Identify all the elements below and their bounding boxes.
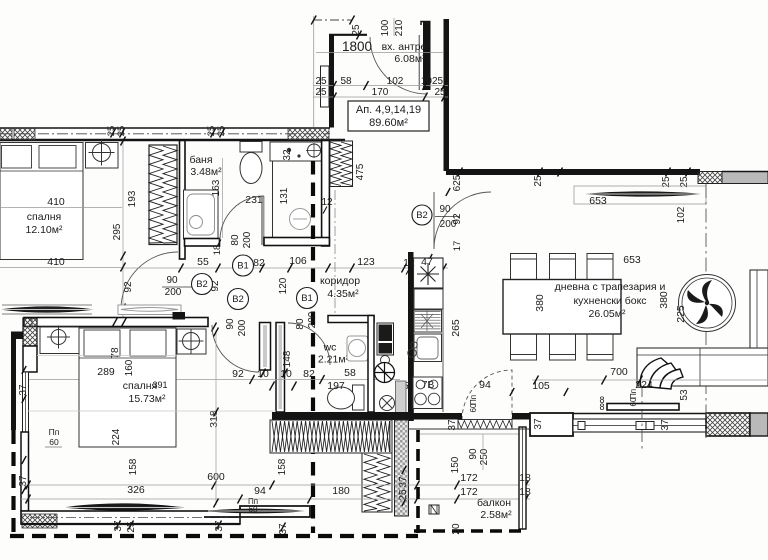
property line south bbox=[10, 534, 418, 538]
door arc entrance bbox=[370, 37, 427, 94]
svg-text:193: 193 bbox=[127, 190, 138, 207]
dim row corridor bbox=[123, 267, 448, 269]
svg-text:92: 92 bbox=[452, 213, 463, 225]
window zigzag south bbox=[270, 420, 392, 453]
svg-text:вх. антре: вх. антре bbox=[382, 41, 427, 53]
svg-text:200: 200 bbox=[237, 319, 248, 336]
svg-text:158: 158 bbox=[128, 458, 139, 475]
svg-text:Ап. 4,9,14,19: Ап. 4,9,14,19 bbox=[356, 104, 421, 116]
wall storage south bbox=[264, 238, 329, 246]
wall entrance west bbox=[329, 34, 334, 128]
radiator lens living north bbox=[586, 192, 700, 197]
svg-text:210: 210 bbox=[394, 19, 405, 36]
svg-text:225: 225 bbox=[675, 305, 687, 323]
tick marks top band bbox=[111, 129, 225, 138]
svg-text:90: 90 bbox=[468, 448, 479, 460]
door leaf gray bath-storage bbox=[261, 196, 265, 245]
balcony south dashed bbox=[414, 529, 527, 533]
svg-text:32: 32 bbox=[282, 149, 293, 161]
balcony floor lines bbox=[420, 433, 519, 435]
wall bedroom1 east bbox=[180, 141, 186, 260]
wall wc north bbox=[328, 316, 374, 323]
svg-text:380: 380 bbox=[534, 294, 546, 312]
wall block living south crosshatch bbox=[706, 413, 750, 436]
counter edge kitchen bbox=[413, 258, 415, 421]
wall living west bbox=[408, 252, 414, 421]
apartment label box bbox=[348, 101, 429, 131]
svg-text:78: 78 bbox=[110, 347, 121, 359]
axis dashdot storage bbox=[334, 190, 336, 316]
svg-text:В2: В2 bbox=[232, 294, 244, 305]
svg-text:В2: В2 bbox=[196, 279, 208, 290]
svg-text:172: 172 bbox=[460, 472, 478, 484]
svg-text:60: 60 bbox=[629, 397, 638, 406]
svg-text:18: 18 bbox=[519, 472, 531, 484]
svg-text:8: 8 bbox=[599, 402, 604, 412]
svg-text:wc: wc bbox=[323, 342, 337, 354]
sink kitchen bbox=[414, 334, 442, 362]
terrace lens bbox=[2, 307, 92, 313]
door bath arc bbox=[220, 196, 264, 240]
svg-text:18: 18 bbox=[519, 486, 531, 498]
svg-text:200: 200 bbox=[307, 311, 318, 328]
dim line 700 bbox=[532, 379, 768, 381]
fridge kitchen bbox=[414, 289, 443, 309]
nightstand bedroom1 bbox=[86, 143, 119, 169]
svg-text:12: 12 bbox=[321, 197, 333, 208]
svg-text:123: 123 bbox=[357, 256, 375, 268]
svg-text:60: 60 bbox=[249, 505, 258, 514]
svg-text:653: 653 bbox=[623, 254, 641, 266]
svg-text:410: 410 bbox=[47, 196, 65, 208]
svg-text:25: 25 bbox=[126, 521, 137, 533]
svg-text:18: 18 bbox=[212, 245, 223, 256]
svg-text:265: 265 bbox=[450, 319, 462, 337]
svg-text:2.21м²: 2.21м² bbox=[318, 354, 350, 366]
svg-text:200: 200 bbox=[242, 231, 253, 248]
pilaster entrance west bbox=[321, 66, 330, 107]
axis dashdot living bbox=[705, 184, 707, 438]
svg-text:148: 148 bbox=[282, 350, 293, 367]
svg-text:80: 80 bbox=[230, 234, 241, 246]
svg-text:200: 200 bbox=[165, 287, 182, 298]
svg-text:318: 318 bbox=[208, 410, 220, 428]
svg-text:В1: В1 bbox=[237, 261, 249, 272]
wall south jog bbox=[204, 506, 310, 517]
wall kitchen south bbox=[408, 413, 462, 420]
door balcony arc dashed bbox=[462, 370, 512, 420]
svg-text:231: 231 bbox=[245, 194, 263, 206]
wardrobe bedroom1 bbox=[149, 145, 177, 245]
svg-text:20: 20 bbox=[451, 523, 462, 535]
svg-text:160: 160 bbox=[124, 359, 135, 376]
svg-text:625: 625 bbox=[452, 174, 463, 191]
svg-text:250: 250 bbox=[479, 448, 490, 465]
svg-text:балкон: балкон bbox=[477, 497, 511, 509]
section line vertical bbox=[311, 161, 315, 533]
balcony east railing bbox=[519, 427, 526, 529]
door label B1 wc bbox=[297, 288, 318, 309]
stove kitchen bbox=[413, 377, 442, 409]
svg-text:90: 90 bbox=[166, 275, 178, 286]
wall bedroom2 south bbox=[21, 511, 240, 524]
shaft star bbox=[417, 263, 439, 285]
ticks bedroom2 band bbox=[113, 318, 118, 327]
svg-text:172: 172 bbox=[460, 486, 478, 498]
svg-text:Пп: Пп bbox=[629, 389, 638, 399]
svg-text:37: 37 bbox=[447, 419, 458, 431]
dim line entrance y52 bbox=[316, 52, 443, 54]
svg-text:37: 37 bbox=[398, 476, 409, 488]
light lines bedroom2 bbox=[37, 355, 176, 357]
nightstand bedroom2 right bbox=[177, 329, 206, 354]
axis dashdot bottom bbox=[641, 385, 643, 452]
svg-text:700: 700 bbox=[610, 366, 628, 378]
svg-text:Пп: Пп bbox=[469, 395, 478, 405]
svg-text:37: 37 bbox=[533, 418, 544, 430]
window lens south 1 bbox=[66, 505, 184, 510]
dim line bath 163 bbox=[222, 158, 224, 238]
svg-text:326: 326 bbox=[127, 484, 145, 496]
bathtub bath bbox=[184, 190, 219, 239]
wall shaft west bbox=[368, 316, 374, 413]
threshold hatch balcony door bbox=[458, 420, 512, 430]
svg-text:25: 25 bbox=[116, 126, 127, 137]
svg-text:58: 58 bbox=[340, 76, 352, 87]
svg-text:25: 25 bbox=[315, 87, 327, 98]
svg-text:47: 47 bbox=[421, 256, 433, 268]
svg-text:кухненски бокс: кухненски бокс bbox=[573, 295, 646, 307]
svg-text:12.10м²: 12.10м² bbox=[26, 224, 63, 236]
svg-text:150: 150 bbox=[450, 456, 461, 473]
bed bedroom2 bbox=[79, 328, 176, 447]
svg-text:94: 94 bbox=[254, 485, 266, 497]
ceiling fan living bbox=[679, 275, 736, 332]
svg-text:90: 90 bbox=[439, 204, 451, 215]
door label B1 bath bbox=[233, 255, 254, 276]
dining chairs bbox=[511, 254, 614, 361]
svg-text:37: 37 bbox=[113, 520, 124, 532]
svg-text:6.08м²: 6.08м² bbox=[394, 53, 426, 65]
tv stand living bbox=[607, 404, 679, 411]
dim ticks south bbox=[116, 521, 121, 530]
door bedroom2 arc bbox=[212, 325, 259, 372]
svg-text:391: 391 bbox=[152, 380, 167, 390]
svg-text:180: 180 bbox=[332, 485, 350, 497]
window living south bbox=[573, 419, 706, 432]
wall bedroom2 north band bbox=[24, 318, 208, 327]
dim row entrance 2 bbox=[313, 96, 448, 98]
checker strip bbox=[395, 420, 409, 516]
balcony west dashed bbox=[416, 430, 420, 533]
door bedroom1 threshold bbox=[118, 305, 181, 315]
wall bath south bbox=[185, 239, 220, 247]
svg-text:475: 475 bbox=[355, 163, 366, 180]
svg-text:653: 653 bbox=[589, 195, 607, 207]
svg-text:102: 102 bbox=[676, 206, 687, 223]
drain balcony bbox=[429, 505, 439, 514]
svg-text:37: 37 bbox=[660, 419, 671, 431]
dim line bedroom1 vertical bbox=[122, 140, 124, 319]
wall pier living south bbox=[530, 413, 573, 436]
closet hatched bbox=[330, 141, 353, 187]
svg-text:410: 410 bbox=[47, 256, 65, 268]
svg-text:25: 25 bbox=[533, 175, 544, 187]
svg-text:2.58м²: 2.58м² bbox=[480, 509, 512, 521]
wall bedroom2 east upper bbox=[260, 323, 271, 371]
sofa living bbox=[637, 348, 768, 386]
svg-text:380: 380 bbox=[658, 291, 670, 309]
svg-text:В1: В1 bbox=[301, 293, 313, 304]
wall storage west line bbox=[272, 158, 274, 238]
svg-text:295: 295 bbox=[112, 223, 123, 240]
svg-text:94: 94 bbox=[479, 379, 491, 391]
svg-text:4.35м²: 4.35м² bbox=[327, 288, 359, 300]
svg-text:92: 92 bbox=[232, 368, 244, 380]
bench bedroom2 bbox=[67, 504, 177, 511]
nightstand bedroom2 left bbox=[40, 327, 79, 354]
svg-text:170: 170 bbox=[372, 87, 389, 98]
svg-text:289: 289 bbox=[97, 366, 115, 378]
svg-text:158: 158 bbox=[277, 458, 288, 475]
washbasin wc bbox=[347, 336, 368, 361]
svg-text:спалня: спалня bbox=[27, 211, 61, 223]
svg-text:37: 37 bbox=[214, 520, 225, 532]
dim line bedroom2 vertical bbox=[215, 330, 217, 505]
water heater storage bbox=[290, 209, 311, 230]
svg-text:58: 58 bbox=[344, 367, 356, 379]
toilet bath bbox=[240, 142, 262, 153]
svg-text:89.60м²: 89.60м² bbox=[369, 117, 408, 129]
vent circle lower bbox=[380, 396, 395, 411]
vent circle small bbox=[381, 356, 390, 365]
dim row entrance 1 bbox=[313, 85, 448, 87]
wall entrance-right outer bbox=[444, 19, 450, 171]
svg-text:131: 131 bbox=[279, 187, 290, 204]
door label B2 bedroom1 bbox=[192, 274, 213, 295]
window recess living north bbox=[574, 186, 706, 204]
ceiling light bedroom1 bbox=[93, 144, 111, 162]
svg-text:коридор: коридор bbox=[320, 275, 360, 287]
wall living north bbox=[446, 169, 700, 175]
svg-text:15.73м²: 15.73м² bbox=[129, 393, 166, 405]
svg-text:163: 163 bbox=[211, 179, 222, 196]
dim line bottom 2 bbox=[21, 498, 530, 500]
dining table bbox=[503, 280, 621, 335]
wall block living south gray bbox=[750, 413, 768, 436]
svg-text:224: 224 bbox=[111, 428, 122, 445]
window lens south 2 bbox=[208, 509, 304, 513]
vent circle main bbox=[375, 363, 395, 383]
shaft box 47 bbox=[414, 258, 444, 288]
dish rack kitchen bbox=[414, 310, 442, 332]
svg-text:25: 25 bbox=[315, 76, 327, 87]
wall terrace west outer bbox=[11, 337, 16, 430]
svg-text:55: 55 bbox=[197, 256, 209, 268]
svg-text:102: 102 bbox=[387, 76, 404, 87]
svg-text:3.48м²: 3.48м² bbox=[190, 166, 222, 178]
wall top-left exterior band bbox=[0, 128, 345, 142]
svg-text:92: 92 bbox=[123, 281, 134, 293]
svg-text:баня: баня bbox=[189, 154, 212, 166]
dim line entrance top bbox=[313, 19, 352, 21]
dim row wc bbox=[28, 379, 400, 381]
property line west bbox=[11, 430, 15, 537]
door wc arc bbox=[288, 323, 330, 365]
svg-text:37: 37 bbox=[18, 384, 29, 396]
svg-text:дневна с трапезария и: дневна с трапезария и bbox=[555, 281, 666, 293]
svg-text:В2: В2 bbox=[416, 210, 428, 221]
svg-text:100: 100 bbox=[380, 19, 391, 36]
svg-text:60: 60 bbox=[469, 403, 478, 412]
window zigzag east column bbox=[362, 453, 392, 512]
light bedroom2 left bbox=[51, 330, 66, 345]
light bedroom2 right bbox=[183, 333, 200, 350]
door label B2 bedroom2 bbox=[228, 289, 249, 310]
wall wc west bbox=[276, 323, 285, 413]
svg-text:37: 37 bbox=[278, 523, 289, 535]
svg-text:25: 25 bbox=[216, 126, 227, 137]
gray strip shaft bbox=[396, 381, 407, 420]
wall wc-block south bbox=[272, 412, 414, 420]
shaft panels bbox=[379, 325, 393, 342]
bed bedroom1 bbox=[0, 143, 83, 260]
svg-text:1800: 1800 bbox=[342, 39, 372, 54]
svg-text:Пп: Пп bbox=[49, 427, 60, 437]
dim line bottom 1 bbox=[21, 484, 530, 486]
svg-text:53: 53 bbox=[679, 389, 690, 401]
washbasin niche storage bbox=[270, 142, 322, 161]
svg-text:1025: 1025 bbox=[421, 76, 444, 87]
svg-text:60: 60 bbox=[49, 437, 59, 447]
door living leaf-arc bbox=[433, 192, 435, 249]
door label B2 living bbox=[412, 205, 432, 225]
toilet wc bbox=[353, 385, 365, 410]
svg-text:120: 120 bbox=[278, 277, 289, 294]
sofa pillows bbox=[640, 358, 668, 387]
svg-text:26.05м²: 26.05м² bbox=[589, 308, 626, 320]
wall entrance east inner bbox=[423, 21, 431, 90]
svg-text:90: 90 bbox=[225, 318, 236, 330]
door bedroom1 arc bbox=[121, 252, 178, 309]
svg-text:197: 197 bbox=[327, 380, 345, 392]
svg-text:17: 17 bbox=[452, 241, 463, 252]
svg-text:7В: 7В bbox=[422, 379, 435, 391]
wall bedroom2 west bbox=[23, 318, 37, 346]
wall storage east bbox=[322, 141, 330, 247]
svg-text:82: 82 bbox=[303, 368, 315, 380]
